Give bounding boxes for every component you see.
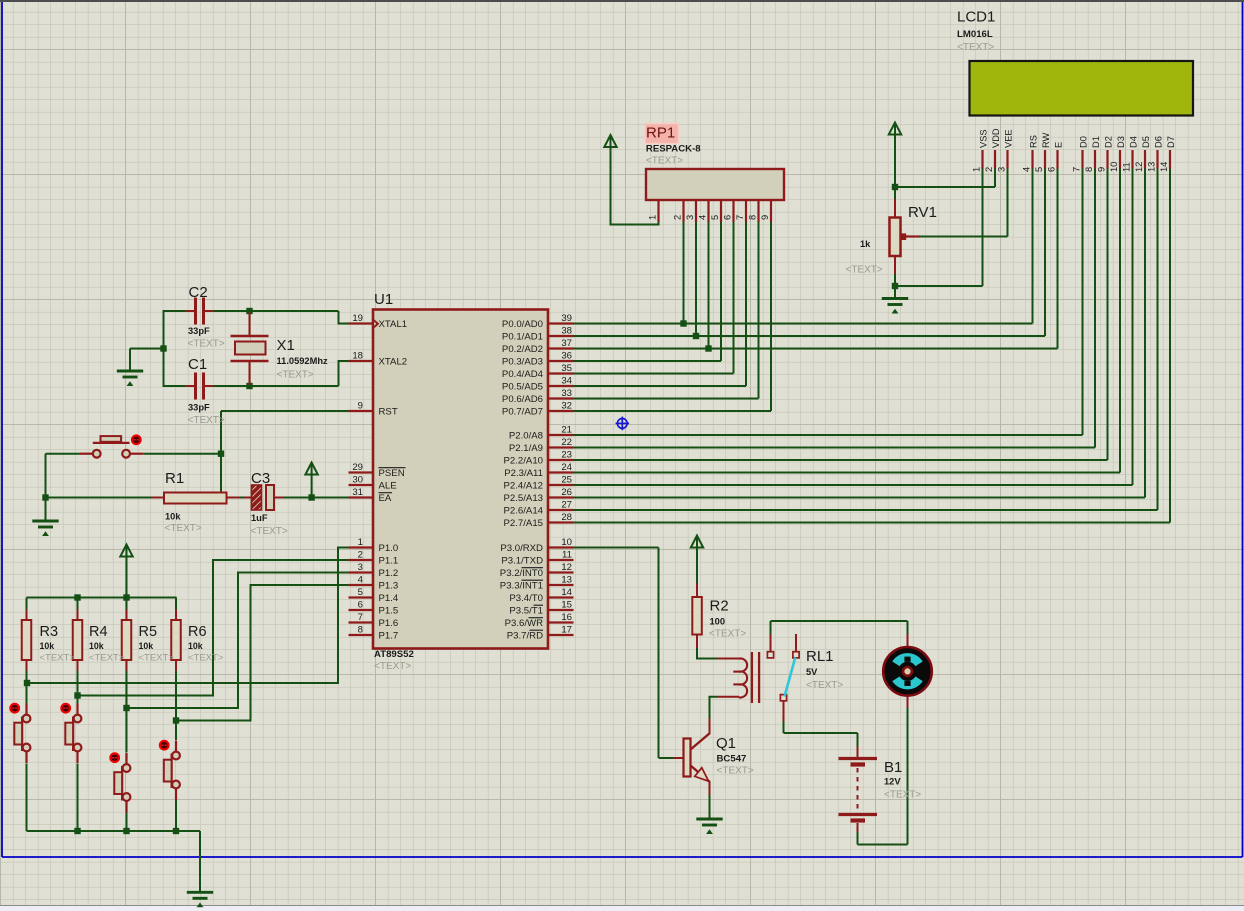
svg-text:5: 5 xyxy=(358,587,363,598)
svg-text:22: 22 xyxy=(561,437,572,448)
svg-text:P2.4/A12: P2.4/A12 xyxy=(504,481,543,492)
svg-text:P1.3: P1.3 xyxy=(379,581,399,592)
svg-text:3: 3 xyxy=(997,167,1007,172)
svg-text:U1: U1 xyxy=(374,291,393,308)
svg-text:PSEN: PSEN xyxy=(379,468,405,479)
svg-text:P3.6/WR: P3.6/WR xyxy=(505,618,543,629)
svg-text:RL1: RL1 xyxy=(806,648,834,665)
svg-text:P3.3/INT1: P3.3/INT1 xyxy=(500,581,543,592)
svg-text:Q1: Q1 xyxy=(716,735,736,752)
svg-text:P2.0/A8: P2.0/A8 xyxy=(509,431,543,442)
svg-text:2: 2 xyxy=(673,215,683,220)
svg-text:P2.5/A13: P2.5/A13 xyxy=(504,493,543,504)
svg-text:38: 38 xyxy=(561,326,572,337)
svg-text:R5: R5 xyxy=(139,624,158,640)
svg-text:D0: D0 xyxy=(1078,136,1088,148)
svg-text:P0.3/AD3: P0.3/AD3 xyxy=(502,357,543,368)
svg-text:6: 6 xyxy=(1047,167,1057,172)
svg-text:P0.2/AD2: P0.2/AD2 xyxy=(502,344,543,355)
svg-text:D4: D4 xyxy=(1128,136,1138,148)
svg-text:9: 9 xyxy=(1097,167,1107,172)
svg-text:P1.2: P1.2 xyxy=(379,568,399,579)
svg-text:4: 4 xyxy=(698,215,708,220)
svg-text:1: 1 xyxy=(358,537,363,548)
svg-text:<TEXT>: <TEXT> xyxy=(139,653,175,664)
svg-text:BC547: BC547 xyxy=(717,754,747,765)
svg-text:7: 7 xyxy=(1072,167,1082,172)
svg-text:AT89S52: AT89S52 xyxy=(374,649,414,660)
svg-text:<TEXT>: <TEXT> xyxy=(717,766,754,777)
svg-text:10: 10 xyxy=(1109,162,1119,172)
svg-text:10k: 10k xyxy=(89,641,104,651)
svg-text:ALE: ALE xyxy=(379,481,397,492)
svg-text:5: 5 xyxy=(1034,167,1044,172)
svg-text:35: 35 xyxy=(561,363,572,374)
svg-text:1: 1 xyxy=(972,167,982,172)
svg-text:RESPACK-8: RESPACK-8 xyxy=(646,144,701,155)
svg-text:D7: D7 xyxy=(1166,136,1176,148)
svg-text:P0.1/AD1: P0.1/AD1 xyxy=(502,332,543,343)
svg-text:<TEXT>: <TEXT> xyxy=(374,661,411,672)
svg-text:LCD1: LCD1 xyxy=(957,9,995,26)
svg-text:<TEXT>: <TEXT> xyxy=(251,526,288,537)
svg-text:12: 12 xyxy=(1134,162,1144,172)
svg-text:<TEXT>: <TEXT> xyxy=(709,629,746,640)
svg-text:VEE: VEE xyxy=(1003,129,1013,148)
svg-text:P0.5/AD5: P0.5/AD5 xyxy=(502,382,543,393)
svg-text:R6: R6 xyxy=(188,624,207,640)
svg-text:C3: C3 xyxy=(251,470,270,487)
svg-text:13: 13 xyxy=(561,575,572,586)
svg-text:25: 25 xyxy=(561,475,572,486)
svg-text:3: 3 xyxy=(685,215,695,220)
svg-text:RST: RST xyxy=(379,407,398,418)
svg-text:E: E xyxy=(1053,142,1063,148)
svg-text:32: 32 xyxy=(561,401,572,412)
svg-text:P3.1/TXD: P3.1/TXD xyxy=(501,556,543,567)
svg-text:LM016L: LM016L xyxy=(957,29,993,40)
svg-text:10k: 10k xyxy=(40,641,55,651)
svg-text:R1: R1 xyxy=(165,470,184,487)
svg-text:26: 26 xyxy=(561,487,572,498)
svg-text:8: 8 xyxy=(358,625,363,636)
svg-text:P2.6/A14: P2.6/A14 xyxy=(504,506,544,517)
svg-text:P3.7/RD: P3.7/RD xyxy=(507,631,543,642)
svg-text:P1.5: P1.5 xyxy=(379,606,399,617)
svg-text:33: 33 xyxy=(561,388,572,399)
svg-text:6: 6 xyxy=(723,215,733,220)
svg-text:RW: RW xyxy=(1041,132,1051,148)
svg-text:9: 9 xyxy=(358,401,363,412)
svg-text:14: 14 xyxy=(561,587,572,598)
svg-text:1uF: 1uF xyxy=(251,513,268,523)
svg-text:12V: 12V xyxy=(884,777,901,787)
svg-text:10k: 10k xyxy=(165,512,181,522)
svg-text:VSS: VSS xyxy=(978,129,988,148)
svg-text:8: 8 xyxy=(1084,167,1094,172)
svg-text:2: 2 xyxy=(358,550,363,561)
svg-text:11: 11 xyxy=(562,550,572,561)
svg-text:RP1: RP1 xyxy=(646,125,675,142)
svg-text:1: 1 xyxy=(648,215,658,220)
svg-text:<TEXT>: <TEXT> xyxy=(188,653,224,664)
svg-text:5V: 5V xyxy=(806,667,818,677)
svg-text:23: 23 xyxy=(561,450,572,461)
svg-text:7: 7 xyxy=(735,215,745,220)
svg-text:37: 37 xyxy=(561,338,572,349)
svg-text:7: 7 xyxy=(358,612,363,623)
svg-text:XTAL1: XTAL1 xyxy=(379,319,408,330)
svg-text:12: 12 xyxy=(561,562,572,573)
svg-text:P3.4/T0: P3.4/T0 xyxy=(509,593,543,604)
svg-text:EA: EA xyxy=(379,493,392,504)
svg-text:14: 14 xyxy=(1159,162,1169,172)
svg-text:2: 2 xyxy=(984,167,994,172)
svg-text:B1: B1 xyxy=(884,759,902,776)
svg-text:<TEXT>: <TEXT> xyxy=(806,680,843,691)
svg-text:4: 4 xyxy=(1022,167,1032,172)
svg-text:10k: 10k xyxy=(139,641,154,651)
svg-text:6: 6 xyxy=(358,600,363,611)
svg-text:R2: R2 xyxy=(710,598,729,615)
svg-text:30: 30 xyxy=(352,475,363,486)
svg-text:<TEXT>: <TEXT> xyxy=(277,370,314,381)
svg-text:4: 4 xyxy=(358,575,364,586)
svg-text:13: 13 xyxy=(1147,162,1157,172)
svg-text:17: 17 xyxy=(561,625,572,636)
svg-text:P1.6: P1.6 xyxy=(379,618,399,629)
svg-text:39: 39 xyxy=(561,313,572,324)
svg-text:100: 100 xyxy=(710,617,726,627)
svg-text:D5: D5 xyxy=(1141,136,1151,148)
svg-text:33pF: 33pF xyxy=(188,403,210,413)
svg-text:<TEXT>: <TEXT> xyxy=(89,653,125,664)
svg-text:15: 15 xyxy=(561,600,572,611)
svg-text:D1: D1 xyxy=(1091,136,1101,148)
svg-text:<TEXT>: <TEXT> xyxy=(188,339,225,350)
svg-text:P1.4: P1.4 xyxy=(379,593,399,604)
svg-text:10: 10 xyxy=(561,537,572,548)
svg-text:21: 21 xyxy=(561,425,572,436)
svg-text:XTAL2: XTAL2 xyxy=(379,357,408,368)
svg-text:3: 3 xyxy=(358,562,363,573)
svg-text:P2.3/A11: P2.3/A11 xyxy=(504,468,543,479)
svg-text:D2: D2 xyxy=(1103,136,1113,148)
svg-text:9: 9 xyxy=(760,215,770,220)
svg-text:P0.4/AD4: P0.4/AD4 xyxy=(502,369,544,380)
svg-text:10k: 10k xyxy=(188,641,203,651)
svg-text:28: 28 xyxy=(561,512,572,523)
svg-text:31: 31 xyxy=(352,487,363,498)
svg-text:R4: R4 xyxy=(89,624,108,640)
svg-text:29: 29 xyxy=(352,462,363,473)
svg-text:<TEXT>: <TEXT> xyxy=(646,156,683,167)
svg-text:<TEXT>: <TEXT> xyxy=(957,42,994,53)
svg-text:RS: RS xyxy=(1028,135,1038,148)
svg-text:P2.7/A15: P2.7/A15 xyxy=(504,518,543,529)
svg-text:19: 19 xyxy=(352,313,363,324)
svg-text:P0.7/AD7: P0.7/AD7 xyxy=(502,407,543,418)
svg-text:D6: D6 xyxy=(1153,136,1163,148)
svg-text:18: 18 xyxy=(352,351,363,362)
svg-text:P1.0: P1.0 xyxy=(379,543,399,554)
svg-text:<TEXT>: <TEXT> xyxy=(188,415,225,426)
svg-text:C2: C2 xyxy=(189,284,208,301)
svg-text:1k: 1k xyxy=(860,239,871,249)
svg-text:P2.1/A9: P2.1/A9 xyxy=(509,443,543,454)
svg-text:P2.2/A10: P2.2/A10 xyxy=(504,456,543,467)
svg-text:8: 8 xyxy=(748,215,758,220)
svg-text:C1: C1 xyxy=(188,356,207,373)
svg-text:VDD: VDD xyxy=(991,128,1001,148)
svg-text:P3.5/T1: P3.5/T1 xyxy=(509,606,543,617)
svg-text:<TEXT>: <TEXT> xyxy=(884,790,921,801)
svg-text:P0.6/AD6: P0.6/AD6 xyxy=(502,394,543,405)
svg-text:11.0592Mhz: 11.0592Mhz xyxy=(277,356,329,366)
svg-text:16: 16 xyxy=(561,612,572,623)
svg-text:11: 11 xyxy=(1122,162,1132,172)
svg-text:X1: X1 xyxy=(277,337,295,354)
svg-text:34: 34 xyxy=(561,376,572,387)
svg-text:5: 5 xyxy=(710,215,720,220)
svg-text:P3.2/INT0: P3.2/INT0 xyxy=(500,568,543,579)
svg-text:P3.0/RXD: P3.0/RXD xyxy=(500,543,543,554)
svg-text:R3: R3 xyxy=(40,624,59,640)
svg-text:D3: D3 xyxy=(1116,136,1126,148)
svg-text:36: 36 xyxy=(561,351,572,362)
svg-text:24: 24 xyxy=(561,462,572,473)
svg-text:<TEXT>: <TEXT> xyxy=(846,265,883,276)
svg-text:27: 27 xyxy=(561,500,572,511)
svg-text:<TEXT>: <TEXT> xyxy=(40,653,76,664)
svg-text:RV1: RV1 xyxy=(908,204,937,221)
svg-text:P1.7: P1.7 xyxy=(379,631,399,642)
svg-text:P0.0/AD0: P0.0/AD0 xyxy=(502,319,543,330)
svg-text:P1.1: P1.1 xyxy=(379,556,399,567)
svg-text:33pF: 33pF xyxy=(188,326,210,336)
svg-text:<TEXT>: <TEXT> xyxy=(165,523,202,534)
